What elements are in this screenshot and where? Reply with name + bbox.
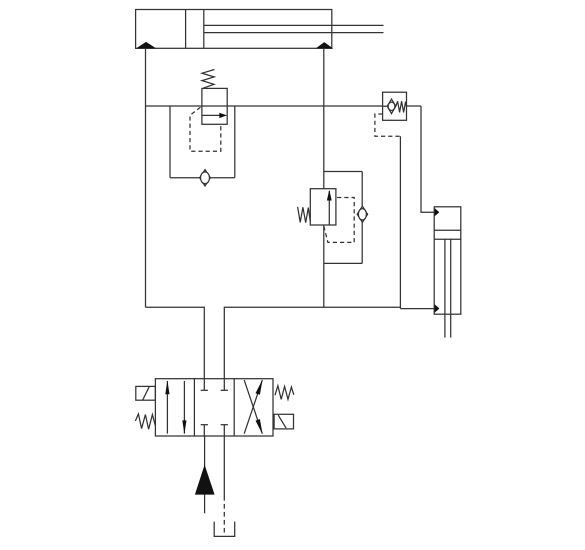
directional valve DV1 right box crossed arrows (244, 379, 262, 434)
sequence valve V1 spring (202, 70, 214, 89)
return spring left (135, 414, 155, 429)
wire: bypass loop bottom (170, 177, 235, 179)
flow arrow into CYL2 upper port (434, 208, 439, 217)
pressure source arrow (195, 465, 215, 495)
wire: pilot drain vertical to CYL2 lower port (399, 136, 401, 308)
wire: counterbalance loop bottom (324, 262, 362, 264)
wire: counterbalance loop top (324, 171, 362, 173)
pilot operated check valve V3 poppet (383, 99, 396, 113)
counterbalance valve V2 flow arrow (327, 190, 332, 225)
solenoid SOL-b box (274, 414, 293, 429)
cylinder CYL1 piston (186, 10, 204, 49)
cylinder CYL2 body (434, 207, 461, 314)
directional valve DV1 left box up arrow (165, 381, 169, 434)
check valve CV1 (200, 170, 211, 186)
wire: bottom line left segment (146, 307, 205, 379)
wire: pressure supply line P (204, 436, 206, 513)
directional valve DV1 position dividers (194, 379, 234, 436)
pilot operated check valve V3 box (383, 92, 407, 120)
directional valve DV1 centre box blocked ports (201, 379, 228, 436)
wire: left vertical from CYL1 cap port (145, 48, 147, 307)
wire: right drop from check valve to CYL2 upper port (421, 106, 434, 212)
cylinder CYL2 piston (434, 230, 461, 239)
counterbalance valve V2 square (310, 189, 336, 225)
pilot operated check valve V3 pilot dashed line (375, 114, 401, 136)
cylinder CYL2 rod (445, 239, 451, 337)
wire: tank return line T dashed part (223, 496, 225, 533)
counterbalance valve V2 spring (298, 207, 311, 223)
flow arrow into CYL2 lower port (434, 304, 439, 313)
wire: counterbalance loop right branch (361, 172, 363, 264)
counterbalance valve V2 pilot dashed line (324, 198, 354, 243)
wire: bottom line right segment (224, 307, 401, 379)
tank symbol (214, 522, 235, 537)
directional valve DV1 left box down arrow (182, 381, 186, 434)
wire: bypass loop left branch (169, 106, 171, 178)
wire: CYL2 lower port line (400, 308, 434, 310)
flow arrow into CYL1 right port (316, 42, 334, 48)
cylinder CYL1 rod (204, 25, 384, 32)
check valve CV2 (357, 206, 367, 222)
return spring right (275, 386, 294, 400)
wire: bypass loop right branch (234, 106, 236, 178)
pilot operated check valve V3 spring (396, 101, 407, 112)
flow arrow into CYL1 left port (136, 42, 157, 49)
directional valve DV1 body (155, 379, 273, 436)
sequence valve V1 pilot dashed line (190, 107, 221, 151)
wire: main horizontal line (146, 105, 422, 107)
cylinder CYL1 body (136, 10, 332, 49)
sequence valve V1 flow arrow (203, 113, 228, 118)
solenoid SOL-a box (136, 386, 156, 400)
wire: tank return line T solid part (223, 436, 225, 496)
sequence valve V1 square (202, 88, 227, 124)
wire: middle vertical lower (323, 225, 325, 307)
wire: middle vertical upper (323, 48, 325, 188)
